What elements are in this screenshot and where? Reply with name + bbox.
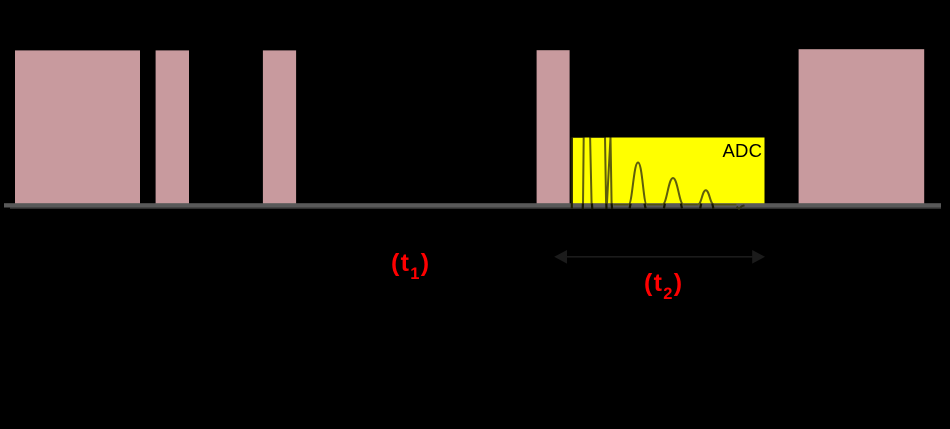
pulse P4 (narrow RF pulse before acquisition) xyxy=(537,50,570,203)
arrowhead left xyxy=(554,250,567,264)
timeline baseline xyxy=(4,203,941,207)
FID decaying oscillation curve (lobes above baseline) xyxy=(572,137,714,205)
arrowhead right xyxy=(752,250,765,264)
t2 interval arrow (double-headed) xyxy=(562,256,758,258)
timeline baseline shadow xyxy=(10,207,941,209)
FID faint baseline ripple between lobes xyxy=(614,204,737,206)
FID zero-crossing bars through the baseline xyxy=(583,203,714,209)
FID tail dip below baseline xyxy=(737,205,745,209)
pulse P2 (narrow RF pulse) xyxy=(156,50,189,203)
FID initial vertical rise xyxy=(571,137,573,209)
pulse P3 (narrow RF pulse) xyxy=(263,50,296,203)
pulse P5 (wide RF pulse, right) xyxy=(799,49,925,203)
ADC acquisition window (yellow box) xyxy=(572,138,765,204)
pulse P1 (wide RF pulse, left) xyxy=(15,50,140,203)
svg-text:ADC: ADC xyxy=(723,140,763,161)
